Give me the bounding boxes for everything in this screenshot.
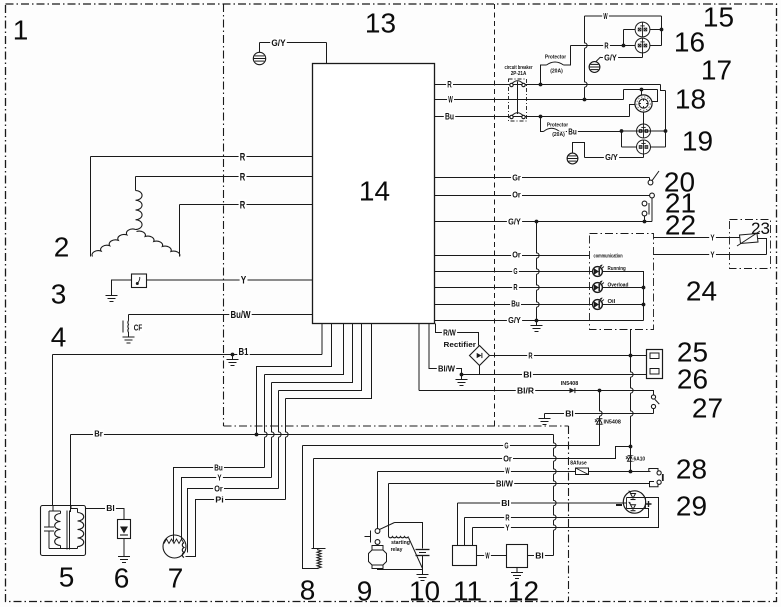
wire diode6 to ground <box>123 539 125 552</box>
wire R bus <box>465 509 649 518</box>
svg-text:6: 6 <box>114 563 130 594</box>
label Bu sparkplug <box>213 464 224 472</box>
wire Y staircase <box>272 324 353 383</box>
wire Br drop to ignition coil <box>70 435 72 513</box>
label G bus <box>503 442 510 450</box>
node R connector <box>629 354 633 358</box>
label R/W <box>442 329 457 337</box>
svg-text:G: G <box>513 266 517 276</box>
ignition coil secondary winding <box>71 506 78 509</box>
label Rectifier <box>442 341 477 348</box>
wire Y to box11 <box>472 528 474 546</box>
receptacle 19 bottom stem <box>643 154 645 158</box>
label G/Y switch <box>507 218 522 226</box>
svg-text:28: 28 <box>676 454 707 485</box>
label Br <box>93 430 104 438</box>
wire oil sensor to ground <box>112 280 132 291</box>
switch S27 <box>649 391 654 395</box>
node W receptacle18 <box>640 88 644 92</box>
svg-text:15: 15 <box>703 2 734 33</box>
wire G/Y output <box>435 221 653 223</box>
wire LED3 link <box>602 304 643 306</box>
panel boundary line (x=494) <box>494 4 496 426</box>
label Bl diode6 <box>105 504 116 512</box>
ground G3 receptacle19 <box>567 153 578 164</box>
label Bl connector <box>522 371 533 379</box>
LED overload <box>593 283 603 293</box>
receptacle 16 lower <box>635 38 650 53</box>
svg-text:24: 24 <box>686 276 717 307</box>
label IN5408 no1 <box>560 380 580 386</box>
svg-text:G/Y: G/Y <box>604 53 617 63</box>
label Bu receptacle19 <box>567 128 578 136</box>
svg-text:Bl: Bl <box>523 370 532 380</box>
node LED2 common <box>642 286 646 290</box>
receptacle 16 center post <box>642 53 644 58</box>
label G/Y top <box>270 38 287 47</box>
svg-text:Bu/W: Bu/W <box>231 310 251 321</box>
svg-text:1: 1 <box>13 15 29 46</box>
label Or bus <box>502 455 513 463</box>
wire R/W <box>436 324 479 346</box>
svg-text:2: 2 <box>54 232 70 263</box>
label Protector 20A no1 <box>544 54 568 60</box>
svg-text:starting: starting <box>391 540 410 546</box>
wire R phase2 drop <box>135 177 137 191</box>
svg-text:R: R <box>513 282 517 292</box>
svg-text:(20A): (20A) <box>550 69 563 75</box>
svg-text:Y: Y <box>505 523 509 533</box>
switch S21 contact <box>650 193 655 198</box>
LED running <box>593 267 603 277</box>
node G/Y tap <box>535 220 539 224</box>
svg-text:14: 14 <box>359 176 390 207</box>
receptacle 16 left strap <box>624 29 636 31</box>
svg-text:16: 16 <box>674 27 705 58</box>
battery B10 <box>416 549 430 551</box>
wire Bl connector <box>462 374 647 376</box>
wire R stator phase 3 <box>180 204 313 206</box>
svg-text:Bl/R: Bl/R <box>517 386 534 396</box>
wire receptacle18 bottom stem <box>643 112 645 124</box>
box 11 body <box>453 546 477 566</box>
label R rect out <box>527 352 534 360</box>
boundary line horizontal y=425 <box>224 425 569 427</box>
wire Bl coil to diode 6 <box>86 509 125 520</box>
node B1 ground tap <box>231 353 235 357</box>
label Y2 <box>709 251 716 259</box>
receptacle 19 upper <box>637 124 651 138</box>
relay K9 moving contact <box>375 529 380 534</box>
ground G11 battery <box>422 570 424 575</box>
charger receptacle 29 body <box>623 491 645 513</box>
wire W to receptacle18 <box>623 90 625 100</box>
stator winding L2b left arm <box>92 229 135 256</box>
node Bl/R branch <box>598 389 602 393</box>
label Y oil sensor <box>240 275 248 285</box>
svg-text:Bu: Bu <box>445 112 454 122</box>
wire W bus <box>378 471 649 473</box>
label Bl/W rectifier <box>437 365 456 373</box>
svg-text:Bu: Bu <box>568 127 577 137</box>
wire R phase1 drop <box>90 157 92 257</box>
label Protector 20A no2 <box>546 122 570 128</box>
label starting relay <box>390 539 411 545</box>
svg-text:8Afuse: 8Afuse <box>570 461 587 467</box>
protector F1 element <box>541 65 547 85</box>
wire Bu comm <box>435 304 594 306</box>
node G/Y switch <box>643 220 647 224</box>
wire Or staircase <box>279 324 362 391</box>
wire communication to R <box>630 329 632 356</box>
node W branch <box>583 98 587 102</box>
node R breaker out <box>539 83 543 87</box>
svg-text:2P-21A: 2P-21A <box>511 71 527 77</box>
svg-text:Y: Y <box>217 473 221 483</box>
label 6A10 <box>632 456 646 462</box>
wire Bl/R <box>418 324 420 391</box>
label Bl/R <box>516 387 535 395</box>
svg-text:W: W <box>485 551 490 561</box>
svg-text:Bu: Bu <box>511 299 520 309</box>
svg-text:Bl: Bl <box>501 498 510 508</box>
wire receptacle18 top pin <box>641 90 643 96</box>
label Gr <box>511 174 522 182</box>
ground G4 oil sensor <box>111 291 113 296</box>
receptacle 18 body <box>635 95 652 112</box>
relay K9 coil <box>389 537 409 538</box>
plus sign 29 <box>646 501 652 507</box>
oil sensor S3 box <box>132 274 147 288</box>
stator winding L2c right arm <box>137 231 180 256</box>
svg-text:12: 12 <box>508 576 539 607</box>
wire LED2 link <box>602 287 643 289</box>
label R receptacle16 <box>603 42 610 50</box>
label circuit breaker <box>503 64 534 69</box>
switch S28 contacts <box>649 469 658 472</box>
label Bu comm <box>510 300 521 308</box>
wire G to heater8 <box>303 446 319 569</box>
label IN5408 no2 <box>602 419 622 425</box>
wire Bl/W bus <box>389 483 650 485</box>
label W receptacle16 <box>602 12 609 20</box>
label Y sparkplug <box>216 474 223 482</box>
label W output <box>447 95 454 103</box>
wire R to receptacle16 <box>571 45 624 47</box>
wire R rectifier out <box>490 355 647 357</box>
switch S20 <box>649 178 651 181</box>
meter box 23 <box>730 220 771 269</box>
label R phase2 <box>239 172 247 182</box>
wire G comm <box>435 271 594 273</box>
svg-text:3: 3 <box>51 279 67 310</box>
svg-text:IN5408: IN5408 <box>604 420 622 426</box>
svg-text:Or: Or <box>512 250 521 260</box>
wire Y to spark plug <box>182 478 272 541</box>
label Running <box>606 265 627 271</box>
wire Bu/W CF <box>129 314 313 316</box>
wire B1 <box>53 354 323 356</box>
node Bl/W ground <box>460 373 464 377</box>
svg-text:4: 4 <box>51 322 67 353</box>
wire G/Y receptacle16 <box>601 57 643 59</box>
svg-text:8: 8 <box>300 575 316 606</box>
label G/Y receptacle16 <box>603 54 618 62</box>
label R comm <box>512 283 519 291</box>
ground G7 diode6 <box>123 552 125 557</box>
switch S22 contacts <box>642 201 647 206</box>
svg-text:B1: B1 <box>239 347 249 358</box>
fuel solenoid Y9 body <box>372 546 383 551</box>
diode D2 IN5408 vertical <box>600 391 603 446</box>
svg-text:W: W <box>448 95 453 105</box>
ignition coil bottom rail <box>49 548 78 550</box>
wire Or output <box>435 195 650 197</box>
ground G1 protective earth <box>253 52 265 64</box>
svg-text:Br: Br <box>94 429 103 439</box>
svg-text:IN5408: IN5408 <box>561 381 579 387</box>
node Br junction <box>255 433 259 437</box>
svg-text:R: R <box>447 80 452 90</box>
stator winding L2a vertical coil <box>136 191 143 230</box>
svg-text:R: R <box>604 41 608 51</box>
boundary line vertical x=568 <box>568 426 570 602</box>
label R phase1 <box>239 152 247 162</box>
svg-text:relay: relay <box>391 547 404 553</box>
diode D3 6A10 <box>630 447 632 472</box>
wire Y bus <box>473 498 659 528</box>
wire R vertical link <box>631 356 634 447</box>
label Bu output <box>444 112 455 120</box>
wire R comm <box>435 287 594 289</box>
rectifier D-bridge <box>470 346 490 366</box>
wire Pi staircase <box>286 324 372 399</box>
wire Or bus <box>314 447 631 459</box>
svg-text:Bl/W: Bl/W <box>496 479 514 489</box>
wire W branch up <box>585 16 588 100</box>
wire Bu to receptacle18 <box>630 105 636 117</box>
svg-text:communication: communication <box>594 254 624 260</box>
wire Bu staircase <box>265 324 344 375</box>
svg-text:Protector: Protector <box>545 55 567 61</box>
label CF <box>133 324 144 332</box>
wire R output <box>435 84 661 86</box>
receptacle 19 right strap <box>650 146 666 148</box>
ignition coil input rail <box>52 506 54 512</box>
svg-text:R: R <box>240 152 246 164</box>
wire W output <box>435 99 624 101</box>
heater R8 element <box>312 548 326 550</box>
wire Bl to box11 <box>457 503 459 546</box>
control unit U14 body <box>313 64 435 324</box>
wire G/Y comm <box>435 320 644 322</box>
svg-text:G: G <box>504 441 508 451</box>
svg-text:Pi: Pi <box>215 495 224 505</box>
svg-text:7: 7 <box>168 563 184 594</box>
wire Bl/W to relay coil <box>388 484 390 537</box>
wire solenoid to ground <box>378 569 423 570</box>
ground G6 B1 <box>232 355 234 360</box>
wire Bu to spark plug <box>174 468 265 542</box>
svg-text:CF: CF <box>134 323 143 333</box>
ground G10 Bl <box>544 414 546 419</box>
fuel solenoid Y9 contact <box>375 540 380 545</box>
svg-text:R: R <box>240 172 246 184</box>
wire Bu output <box>435 116 630 118</box>
label Y1 <box>709 234 716 242</box>
wire R phase3 drop <box>179 205 181 257</box>
svg-text:Bl/W: Bl/W <box>438 364 456 374</box>
capacitor CF element <box>128 315 130 321</box>
wire Y2 to meter <box>654 254 767 256</box>
wire Bl bus <box>458 502 624 504</box>
node G/Y ground tap <box>535 319 539 323</box>
diode D6 box <box>118 520 131 539</box>
label Pi sparkplug <box>214 496 225 504</box>
svg-text:G/Y: G/Y <box>508 315 521 325</box>
svg-text:5: 5 <box>59 562 75 593</box>
label communication <box>592 253 624 259</box>
svg-text:Or: Or <box>512 190 521 200</box>
svg-text:9: 9 <box>357 576 373 607</box>
wire receptacle18 right pin <box>652 90 658 102</box>
label R phase3 <box>239 200 247 210</box>
label B1 <box>237 347 249 356</box>
wire Pi to spark plug <box>186 500 286 557</box>
wire W box11-box12 <box>477 555 507 557</box>
svg-text:Y: Y <box>241 275 247 287</box>
circuit breaker linkage <box>517 82 519 115</box>
wire Or to heater8 <box>313 459 315 549</box>
label Overload <box>606 282 629 288</box>
label G/Y comm <box>507 316 522 324</box>
svg-text:G/Y: G/Y <box>508 217 521 227</box>
wire G/Y receptacle19 <box>585 157 644 159</box>
capacitor C5 inside coil <box>48 511 50 527</box>
svg-text:Y: Y <box>710 250 714 260</box>
label W box11 <box>484 552 491 560</box>
circuit breaker pole R <box>510 83 513 86</box>
wire relay to battery <box>395 523 423 549</box>
svg-text:R: R <box>528 351 532 361</box>
svg-text:R/W: R/W <box>443 328 457 338</box>
wire Br vertical to box12 <box>554 435 557 556</box>
svg-text:Bu: Bu <box>214 463 223 473</box>
wire R down right side <box>661 85 666 91</box>
receptacle 16 upper <box>635 22 650 37</box>
label 2P-21A <box>510 70 528 75</box>
svg-text:Bl: Bl <box>106 503 115 513</box>
wire G/Y vertical link <box>537 222 540 321</box>
spark plug P7 body <box>163 535 186 558</box>
svg-text:Or: Or <box>503 454 512 464</box>
wire G/Y control unit top <box>260 42 327 44</box>
LED oil <box>593 300 603 310</box>
label Or switch <box>511 191 522 199</box>
wire Or to spark plug <box>188 489 279 553</box>
label G comm <box>512 267 519 275</box>
label Or sparkplug <box>213 485 224 493</box>
label Or comm <box>511 251 522 259</box>
svg-text:W: W <box>505 466 510 476</box>
wire R stator phase 1 <box>91 156 313 158</box>
svg-text:17: 17 <box>701 55 732 86</box>
label Oil <box>606 298 616 304</box>
ignition coil primary winding <box>60 511 62 514</box>
protector F2 element <box>541 117 544 132</box>
wire Bl switch27 <box>545 413 654 415</box>
label R output <box>446 80 453 88</box>
svg-text:26: 26 <box>677 364 708 395</box>
diode D1 IN5408 <box>570 388 575 393</box>
wire Bl box12 <box>528 555 554 557</box>
communication module box <box>590 234 654 330</box>
label W bus <box>504 467 511 475</box>
svg-text:Protector: Protector <box>547 123 569 129</box>
svg-text:Rectifier: Rectifier <box>444 340 477 349</box>
wire Br staircase <box>257 324 332 435</box>
svg-text:(20A): (20A) <box>552 132 565 138</box>
wire R stator phase 2 <box>136 176 313 178</box>
label Y bus <box>504 524 511 532</box>
node Bu breaker out <box>539 115 543 119</box>
receptacle 16 right strap <box>650 29 662 31</box>
wire Y oil sensor <box>147 279 313 281</box>
svg-text:Bl: Bl <box>535 551 544 561</box>
svg-text:Bl: Bl <box>565 409 574 419</box>
svg-text:18: 18 <box>675 84 706 115</box>
svg-text:13: 13 <box>365 8 396 39</box>
svg-text:Gr: Gr <box>512 173 521 183</box>
label Bl box12 <box>534 552 545 560</box>
label G/Y receptacle19 <box>604 153 619 161</box>
wire Gr output <box>435 177 650 179</box>
box 12 body <box>507 545 528 568</box>
receptacle 19 left strap <box>621 131 623 147</box>
label Bu/W CF <box>229 310 251 319</box>
wire W to relay contact <box>377 472 379 529</box>
svg-text:22: 22 <box>665 210 696 241</box>
ground G2 receptacle16 <box>589 62 600 73</box>
receptacle 19 feed <box>622 130 666 132</box>
wire Bl minus <box>623 502 626 504</box>
ignition coil T5 box <box>41 506 86 556</box>
wire B1 drop to ignition coil <box>52 355 54 506</box>
fuse F8A <box>569 460 588 466</box>
label Bl bus <box>500 499 511 507</box>
connector CN25 body <box>647 350 663 379</box>
ignition coil core <box>66 511 68 550</box>
svg-text:Y: Y <box>710 233 714 243</box>
svg-text:27: 27 <box>692 393 723 424</box>
ground G9 panel <box>536 321 538 326</box>
svg-text:R: R <box>505 513 509 523</box>
ground G8 rectifier <box>461 375 463 380</box>
circuit breaker CB box <box>509 79 527 121</box>
wire R to box11 <box>464 518 466 546</box>
resistor R23 element <box>740 234 759 244</box>
label Bl/W bus <box>495 480 514 488</box>
charger 29 diode lower <box>631 505 636 510</box>
svg-text:G/Y: G/Y <box>271 38 286 49</box>
wire relay coil to ground diagonal <box>409 538 423 569</box>
svg-text:19: 19 <box>682 126 713 157</box>
node junction 6A10 top <box>629 445 633 449</box>
engine/panel boundary line (left, x=223) <box>223 4 225 426</box>
node junction 6A10 bottom <box>629 470 633 474</box>
wire LED common <box>602 272 643 321</box>
receptacle 19 lower <box>637 140 651 154</box>
